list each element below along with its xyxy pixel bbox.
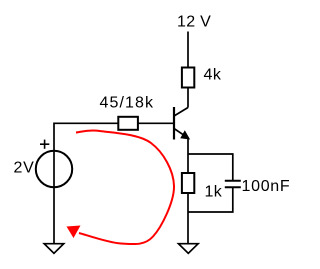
- resistor R 1k: [182, 173, 194, 193]
- ground left: [44, 244, 64, 254]
- wire base left segment: [54, 122, 118, 124]
- svg-text:4k: 4k: [204, 67, 222, 84]
- wire capacitor bottom: [188, 187, 233, 212]
- capacitor C 100nF: [225, 181, 241, 188]
- voltage source V1: [36, 151, 72, 187]
- svg-text:2V: 2V: [14, 159, 35, 176]
- wire supply to R 4k: [187, 32, 189, 68]
- resistor R 4k: [182, 68, 194, 88]
- svg-text:100nF: 100nF: [242, 178, 291, 195]
- wire tee top to capacitor: [188, 154, 233, 180]
- ground middle: [179, 244, 199, 254]
- svg-text:1k: 1k: [205, 184, 223, 201]
- red loop arrow: [67, 130, 175, 244]
- wire base right segment: [138, 122, 174, 124]
- resistor R 45/18k: [118, 117, 138, 130]
- wire left branch vertical: [53, 123, 55, 245]
- svg-text:45/18k: 45/18k: [100, 95, 155, 112]
- svg-text:12 V: 12 V: [177, 14, 211, 31]
- wire R 4k to collector: [187, 88, 189, 108]
- plus polarity mark: [40, 140, 49, 149]
- wire emitter down: [187, 138, 189, 244]
- transistor Q1: [174, 107, 189, 140]
